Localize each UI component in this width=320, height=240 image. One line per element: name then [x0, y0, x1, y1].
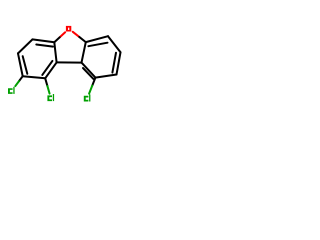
bond C4a-C9b [54, 42, 56, 62]
bond C2-Cl (half #00a000) [19, 76, 23, 81]
double bond L=A [18, 53, 23, 76]
atom label Cl (right, on C9) [84, 96, 89, 102]
bond T2-R2 [108, 36, 121, 52]
double bond C5a=T2 [86, 36, 108, 42]
atom label Cl (middle, on C1) [47, 95, 52, 101]
molecule: trichlorodibenzofuran structure diagram [0, 0, 130, 130]
atom label Cl (left, on C2) [8, 88, 13, 94]
double bond R2=B2 [117, 52, 121, 74]
bond C1-Cl (half #00a000) [45, 78, 47, 86]
bond B2-V2 [95, 75, 116, 78]
bond C9b-C9a [57, 61, 82, 63]
atom label O (blocky glyph) [66, 26, 71, 32]
bond T-L [18, 39, 33, 53]
bond C9a-C5a [82, 42, 86, 63]
double bond V=C9b [45, 62, 56, 78]
bond O-C5a (red half) [73, 32, 80, 37]
double bond C4a=T [33, 39, 55, 42]
bond O-C4a (red half) [60, 32, 65, 37]
bond C9-Cl (half #00a000) [92, 78, 95, 86]
bond A-V [23, 76, 46, 78]
double bond V2=C9a [82, 63, 96, 78]
